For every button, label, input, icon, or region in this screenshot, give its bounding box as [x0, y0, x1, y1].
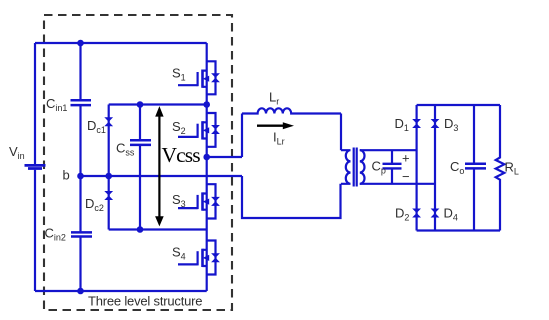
- diode Dc2: [104, 191, 113, 200]
- svg-text:Cin1: Cin1: [46, 96, 67, 113]
- svg-text:ILr: ILr: [273, 130, 285, 147]
- wire: Cin1/Cin2 vertical: [79, 43, 81, 291]
- resistor RL: [496, 105, 505, 231]
- transistor S3: [178, 184, 220, 218]
- inductor Lr: [242, 108, 341, 113]
- svg-text:Lr: Lr: [269, 90, 279, 107]
- wire: Lr to transformer primary: [340, 114, 342, 151]
- wire: node a to tank: [207, 114, 242, 158]
- transistor S2: [178, 113, 220, 147]
- svg-text:RL: RL: [505, 159, 519, 176]
- diode D4: [431, 209, 440, 218]
- label D2: [395, 206, 409, 223]
- wire: Dc1 vertical: [108, 105, 110, 177]
- label +: [402, 151, 410, 166]
- wire: switch stack vertical: [206, 43, 208, 291]
- label Cin2: [45, 226, 66, 243]
- label Dc2: [85, 196, 104, 213]
- svg-text:D1: D1: [395, 116, 409, 133]
- label Co: [450, 159, 464, 176]
- diode D1: [412, 119, 421, 128]
- node Css top: [137, 101, 144, 108]
- svg-text:S4: S4: [172, 245, 186, 262]
- wire: left vertical (Vin branch): [34, 43, 36, 291]
- label Vin: [9, 144, 25, 161]
- svg-text:S3: S3: [172, 192, 186, 209]
- capacitor Cin2: [71, 232, 92, 236]
- svg-text:Vin: Vin: [9, 144, 25, 161]
- svg-text:Vcss: Vcss: [162, 143, 201, 167]
- wire: Dc2 vertical: [108, 176, 110, 230]
- capacitor Cin1: [71, 100, 92, 105]
- node top rail / Cin1: [77, 40, 84, 47]
- dashed box: Three level structure: [44, 15, 232, 310]
- label S1: [172, 66, 186, 83]
- label RL: [505, 159, 519, 176]
- svg-text:D4: D4: [444, 206, 458, 223]
- label Cp: [372, 159, 386, 176]
- label D3: [444, 116, 458, 133]
- label b: [63, 168, 70, 183]
- transformer T1 primary: [341, 150, 351, 184]
- label Lr: [269, 90, 279, 107]
- wire: return path (node b to transformer): [242, 176, 341, 218]
- transformer T1 secondary: [360, 150, 365, 184]
- svg-text:Three level structure: Three level structure: [88, 294, 202, 309]
- label Three level structure: [88, 294, 202, 309]
- label Css: [116, 141, 135, 158]
- svg-text:−: −: [402, 169, 410, 184]
- label iLr: [273, 130, 285, 147]
- wire: rectifier right leg: [434, 105, 436, 231]
- svg-text:b: b: [63, 168, 70, 183]
- node b rail: [81, 175, 243, 177]
- svg-text:S2: S2: [172, 119, 186, 136]
- svg-text:Dc2: Dc2: [85, 196, 104, 213]
- capacitor Cp: [391, 150, 393, 184]
- label S3: [172, 192, 186, 209]
- wire: rectifier left leg: [416, 105, 418, 231]
- svg-text:S1: S1: [172, 66, 186, 83]
- svg-text:D3: D3: [444, 116, 458, 133]
- diode Dc1: [104, 117, 113, 126]
- svg-text:Css: Css: [116, 141, 135, 158]
- wire: secondary top to rectifier: [360, 149, 417, 151]
- wire: rectifier bottom rail: [417, 229, 500, 231]
- svg-text:+: +: [402, 151, 410, 166]
- transformer core: [354, 148, 357, 187]
- label Vcss: [162, 143, 201, 167]
- label D4: [444, 206, 458, 223]
- capacitor Co: [473, 105, 475, 231]
- svg-text:Dc1: Dc1: [87, 118, 106, 135]
- wire: secondary bottom to rectifier: [360, 183, 435, 185]
- svg-text:Co: Co: [450, 159, 464, 176]
- diode D2: [412, 209, 421, 218]
- node a (S2-S3): [203, 154, 210, 161]
- svg-text:Cp: Cp: [372, 159, 386, 176]
- diode D3: [431, 119, 440, 128]
- label -: [402, 169, 410, 184]
- wire: bottom rail: [35, 290, 207, 292]
- wire: rectifier top rail: [417, 104, 500, 106]
- current arrow iLr: [257, 124, 284, 126]
- svg-text:Cin2: Cin2: [45, 226, 66, 243]
- transistor S4: [178, 241, 220, 275]
- wire: Css top rail: [109, 103, 207, 105]
- node Css bottom: [137, 226, 144, 233]
- label S4: [172, 245, 186, 262]
- transistor S1: [178, 61, 220, 94]
- wire: Css vertical: [139, 105, 141, 230]
- wire: bottom mid rail (Dc2/Css to S3-S4 node): [109, 228, 207, 230]
- Vcss measurement arrow: [158, 114, 160, 219]
- svg-text:D2: D2: [395, 206, 409, 223]
- capacitor Css: [130, 140, 151, 145]
- label D1: [395, 116, 409, 133]
- node bottom rail / Cin2: [77, 288, 84, 295]
- label Dc1: [87, 118, 106, 135]
- wire: top rail: [35, 42, 207, 44]
- label S2: [172, 119, 186, 136]
- node S1-S2: [203, 101, 210, 108]
- node b dots: [77, 173, 112, 180]
- battery Vin: [25, 165, 46, 168]
- label Cin1: [46, 96, 67, 113]
